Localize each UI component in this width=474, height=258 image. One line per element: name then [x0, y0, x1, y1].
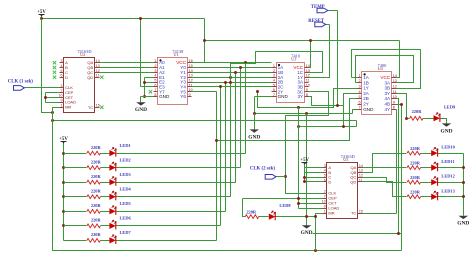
no-connect U2 TC [100, 106, 103, 109]
wire R10 to LED10 [421, 153, 432, 155]
svg-text:3A: 3A [384, 80, 391, 85]
junction LED4 trunk [62, 195, 65, 198]
wire over U3 to 1C [231, 52, 323, 83]
svg-text:3Y: 3Y [297, 94, 303, 99]
junction LED13 [462, 195, 465, 198]
resistor R4 [87, 195, 101, 199]
junction GND tie [143, 95, 146, 98]
wire to R3 [64, 182, 87, 184]
svg-text:CLK (2 sek): CLK (2 sek) [250, 167, 275, 172]
svg-text:13: 13 [189, 74, 193, 78]
wire over U4 line 2 [356, 56, 414, 83]
wire U4 3Y to LED9 [397, 94, 407, 119]
wire GND drop [254, 97, 256, 114]
wire to U4 1B [356, 82, 358, 84]
wire +5V long line jog [356, 121, 358, 127]
svg-text:D: D [65, 75, 68, 80]
junction LED11 [462, 166, 465, 169]
wire +5V to U3 VCC [305, 41, 311, 68]
wire to R4 [64, 196, 87, 198]
svg-text:7: 7 [324, 195, 326, 199]
wire bottom line 2 [313, 233, 402, 235]
LED LED5 [109, 206, 116, 215]
wire +5V stem [41, 16, 43, 19]
svg-text:4: 4 [273, 79, 275, 83]
ground G4 LED9 [442, 123, 452, 126]
wire Y6 drop to LED7 [216, 92, 218, 241]
resistor R1 [87, 151, 101, 155]
junction LED3 trunk [62, 181, 65, 184]
wire Y6 row [192, 91, 217, 93]
wire over U4 line 1 [352, 50, 421, 89]
wire MR bus / bottom rail [53, 108, 402, 251]
wire 3Y line extension [338, 105, 344, 107]
svg-text:TC: TC [88, 105, 93, 110]
wire R12 to LED12 [421, 182, 432, 184]
wire LED8 cathode to GND [275, 216, 316, 218]
junction 2Y row [256, 90, 259, 93]
junction U5 D [303, 180, 306, 183]
junction Y3 cross [229, 81, 232, 84]
wire U5 MR drop to bottom rail [316, 214, 323, 251]
wire to LOAD [46, 102, 60, 104]
wire E1-E2-GND tie [144, 78, 146, 97]
svg-text:5: 5 [324, 174, 326, 178]
svg-text:14: 14 [189, 69, 193, 73]
svg-text:2: 2 [61, 84, 63, 88]
svg-text:U5: U5 [343, 157, 348, 162]
svg-text:LED13: LED13 [441, 188, 455, 193]
wire U3 3C to CLK2 net [286, 92, 329, 177]
svg-text:GND: GND [457, 221, 469, 227]
svg-text:LED6: LED6 [120, 216, 132, 221]
wire Y5 row [192, 86, 272, 88]
wire U4 4Y drop to TC [396, 110, 398, 214]
svg-text:11: 11 [189, 83, 193, 87]
junction LED6 trunk [62, 224, 65, 227]
svg-text:14: 14 [359, 164, 363, 168]
svg-text:6: 6 [154, 83, 156, 87]
resistor R5 [87, 209, 101, 213]
svg-text:7: 7 [61, 89, 63, 93]
svg-text:U4: U4 [378, 66, 384, 71]
wire QC to A2 [100, 72, 154, 74]
resistor R11 [407, 166, 421, 170]
resistor R3 [87, 180, 101, 184]
svg-text:220R: 220R [412, 109, 423, 114]
svg-text:220R: 220R [91, 232, 102, 237]
svg-text:12: 12 [359, 174, 363, 178]
resistor R12 [407, 180, 421, 184]
svg-text:9: 9 [324, 205, 326, 209]
IC U1 74138 [154, 49, 193, 104]
wire Y0 row [192, 62, 272, 64]
resistor R7 [87, 239, 101, 243]
junction GND line [253, 112, 256, 115]
wire CEP/CET/LOAD feed [298, 108, 300, 209]
wire QB to A1 [100, 67, 154, 69]
wire LED6 cathode row [116, 225, 221, 227]
LED LED2 [109, 162, 116, 171]
junction G3 stem [305, 112, 308, 115]
no-connect U1 Y7 [149, 90, 152, 93]
wire +5V to U5 B [305, 172, 323, 174]
svg-text:220R: 220R [410, 146, 421, 151]
junction Y4 [224, 81, 227, 84]
wire LED3 cathode row [116, 182, 236, 184]
svg-text:8: 8 [306, 93, 308, 97]
IC U2 74163D [59, 49, 100, 112]
junction band 2A [297, 125, 300, 128]
wire Y2 row [192, 72, 272, 74]
svg-text:14: 14 [306, 64, 310, 68]
svg-text:12: 12 [393, 85, 397, 89]
svg-text:LED5: LED5 [120, 201, 132, 206]
IC U5 74163D [322, 154, 363, 219]
svg-text:10: 10 [306, 83, 310, 87]
wire +5V to U5 D [305, 181, 323, 183]
wire +5V to U1 VCC [192, 19, 205, 63]
svg-text:11: 11 [306, 79, 310, 83]
svg-text:16: 16 [189, 59, 193, 63]
wire Y0 drop to LED1 [245, 63, 247, 154]
svg-text:3: 3 [61, 59, 63, 63]
svg-text:LED11: LED11 [441, 159, 454, 164]
wire to U1 E1 [145, 77, 154, 79]
svg-text:10: 10 [189, 88, 193, 92]
wire R8 to LED8 [259, 216, 269, 218]
svg-text:220R: 220R [246, 210, 257, 215]
wire U3 GND pin [255, 96, 272, 98]
wire QC to LED12 [363, 178, 407, 183]
svg-text:4Y: 4Y [384, 107, 390, 112]
junction 2A drop [342, 125, 345, 128]
junction Y3 [229, 76, 232, 79]
svg-text:2: 2 [273, 69, 275, 73]
wire R3 to LED3 [101, 182, 110, 184]
wire R2 to LED2 [101, 167, 110, 169]
junction +5V rail [203, 39, 206, 42]
svg-text:Y6: Y6 [180, 94, 186, 99]
wire to R5 [64, 211, 87, 213]
wire LED7 cathode row [116, 240, 217, 242]
svg-text:LED8: LED8 [279, 203, 291, 208]
port RESET [315, 22, 326, 27]
junction LED8/GND stem [305, 215, 308, 218]
LED LED11 [431, 162, 438, 171]
svg-text:6: 6 [324, 178, 326, 182]
junction CLK2 port [284, 175, 287, 178]
wire QD to LED13 [363, 182, 407, 197]
svg-text:1: 1 [61, 104, 63, 108]
svg-text:3: 3 [273, 74, 275, 78]
svg-text:15: 15 [359, 210, 363, 214]
wire band line to U4 2A [299, 126, 357, 128]
wire CLK2 to U5 CLK [286, 177, 323, 194]
svg-text:CLK (1 sek): CLK (1 sek) [8, 80, 33, 85]
svg-text:VCC: VCC [380, 75, 390, 80]
wire LED10 cathode [438, 153, 464, 155]
wire to R2 [64, 167, 87, 169]
svg-text:MR: MR [65, 105, 71, 110]
svg-text:TC: TC [351, 211, 356, 216]
LED LED12 [431, 177, 438, 186]
wire LED4 cathode row [116, 196, 231, 198]
svg-text:220R: 220R [410, 190, 421, 195]
wire GND band line [255, 113, 353, 115]
ground G1 under U1 [136, 102, 146, 105]
LED LED9 [434, 113, 441, 122]
svg-text:6: 6 [61, 74, 63, 78]
wire to CET [46, 97, 60, 99]
svg-text:9: 9 [306, 88, 308, 92]
svg-text:1: 1 [154, 59, 156, 63]
svg-text:2B: 2B [363, 96, 369, 101]
wire Y1 drop to LED2 [240, 68, 242, 168]
wire R6 to LED6 [101, 225, 110, 227]
junction E3 drop [139, 17, 142, 20]
svg-text:4: 4 [154, 74, 156, 78]
svg-text:13: 13 [306, 69, 310, 73]
svg-text:3: 3 [324, 164, 326, 168]
LED LED6 [109, 220, 116, 229]
wire LED13 cathode [438, 196, 464, 198]
wire U4 GND drop to GND line [353, 110, 358, 114]
svg-text:U3: U3 [291, 57, 296, 62]
junction 4A line [397, 232, 400, 235]
wire +5V down to MR bus [42, 19, 53, 113]
svg-text:3: 3 [358, 85, 360, 89]
svg-text:15: 15 [189, 64, 193, 68]
junction CET tie [44, 96, 47, 99]
port TEMP [317, 8, 328, 13]
port CLK (1 sek) [14, 86, 25, 91]
svg-text:13: 13 [359, 169, 363, 173]
wire LED9 cathode [440, 119, 447, 124]
svg-text:220R: 220R [410, 175, 421, 180]
LED LED10 [431, 147, 438, 156]
wire Y3 drop to LED4 [230, 78, 232, 197]
svg-text:GND: GND [248, 134, 260, 140]
wire to ground G2 [254, 114, 256, 130]
no-connect U2 QD [100, 76, 103, 79]
wire Y3 row [192, 77, 272, 79]
wire RESET to U3 1Y [309, 25, 330, 78]
junction 2Y/CEP net [297, 106, 300, 109]
wire to R9 [407, 118, 410, 120]
junction Y2 [234, 71, 237, 74]
svg-text:8: 8 [154, 93, 156, 97]
wire +5V U5 stem [304, 165, 306, 182]
LED LED8 [269, 211, 276, 220]
LED LED4 [109, 191, 116, 200]
svg-text:GND: GND [301, 230, 313, 236]
junction LED1 trunk [62, 152, 65, 155]
svg-text:8: 8 [393, 106, 395, 110]
resistor R2 [87, 166, 101, 170]
wire TEMP [328, 10, 338, 12]
svg-text:4A: 4A [384, 96, 391, 101]
wire Y5 drop to LED6 [220, 87, 222, 226]
svg-text:11: 11 [96, 74, 100, 78]
wire +5V rail 2 [205, 40, 400, 42]
svg-text:12: 12 [189, 79, 193, 83]
wire to ground G1 [140, 97, 142, 102]
svg-text:14: 14 [96, 59, 100, 63]
wire right GND bus [463, 154, 465, 216]
wire +5V to U5 A [305, 167, 323, 169]
svg-text:MR: MR [328, 211, 334, 216]
wire +5V long line [53, 120, 357, 122]
junction LED12 [462, 181, 465, 184]
svg-text:220R: 220R [91, 174, 102, 179]
junction 4B [400, 103, 403, 106]
svg-text:13: 13 [393, 79, 397, 83]
svg-text:1A: 1A [363, 75, 370, 80]
svg-text:GND: GND [441, 128, 453, 134]
svg-text:GND: GND [278, 94, 289, 99]
wire up to U4 2A [344, 94, 358, 127]
wire to CEP [46, 92, 60, 94]
no-connect U2 C [53, 71, 56, 74]
wire R11 to LED11 [421, 167, 432, 169]
svg-text:10: 10 [393, 95, 397, 99]
svg-text:5: 5 [273, 83, 275, 87]
wire QA to A0 [100, 62, 154, 64]
svg-text:220R: 220R [91, 159, 102, 164]
svg-text:LED7: LED7 [120, 230, 132, 235]
svg-text:11: 11 [393, 90, 397, 94]
wire CLK1 to U2 CLK [25, 87, 60, 89]
svg-text:LED3: LED3 [120, 172, 132, 177]
svg-text:LED1: LED1 [120, 143, 131, 148]
wire CEP-CET-LOAD tie [45, 93, 47, 103]
svg-text:10: 10 [322, 200, 326, 204]
wire +5V drop to E3 [140, 19, 142, 87]
svg-text:7: 7 [273, 93, 275, 97]
svg-text:2: 2 [154, 64, 156, 68]
wire to R1 [64, 153, 87, 155]
junction LED2 trunk [62, 166, 65, 169]
wire Y1 row [192, 67, 272, 69]
wire CLK2 port [276, 176, 286, 178]
svg-text:LED12: LED12 [441, 174, 454, 179]
wire +5V to U5 C [305, 177, 323, 179]
svg-text:4: 4 [61, 64, 63, 68]
LED LED13 [431, 191, 438, 200]
junction +5V stem [40, 17, 43, 20]
resistor R6 [87, 224, 101, 228]
svg-text:D: D [328, 179, 331, 184]
svg-text:7: 7 [154, 88, 156, 92]
wire to U5 LOAD [299, 208, 323, 210]
svg-text:220R: 220R [91, 218, 102, 223]
svg-text:13: 13 [96, 64, 100, 68]
junction Y0 [244, 61, 247, 64]
svg-text:12: 12 [96, 69, 100, 73]
svg-text:9: 9 [393, 100, 395, 104]
LED LED3 [109, 177, 116, 186]
svg-text:7: 7 [358, 106, 360, 110]
svg-text:1: 1 [324, 210, 326, 214]
resistor R9 [410, 116, 424, 120]
svg-text:9: 9 [61, 99, 63, 103]
svg-text:U1: U1 [173, 52, 178, 57]
wire QA to LED11 [363, 167, 407, 169]
wire +5V rail top [42, 18, 205, 20]
junction U3 VCC tap [309, 39, 312, 42]
svg-text:LED9: LED9 [444, 105, 456, 110]
junction LED8/MR vert [314, 215, 317, 218]
svg-text:LED4: LED4 [120, 187, 132, 192]
svg-text:GND: GND [159, 94, 170, 99]
junction U5 C [303, 176, 306, 179]
svg-text:1: 1 [358, 74, 360, 78]
wire R4 to LED4 [101, 196, 110, 198]
svg-text:9: 9 [189, 93, 191, 97]
wire U1 GND pin [141, 96, 154, 98]
wire R9 to LED9 [423, 118, 434, 120]
junction +5V/MR bus [51, 111, 54, 114]
svg-text:1B: 1B [363, 80, 369, 85]
wire U4 4A drop [397, 99, 399, 234]
junction TEMP/3Y [336, 104, 339, 107]
wire LED1 cathode row [116, 153, 246, 155]
svg-text:5: 5 [61, 69, 63, 73]
no-connect U2 A [53, 61, 56, 64]
wire to U1 E2 [145, 82, 154, 84]
svg-text:1Y: 1Y [363, 86, 369, 91]
wire to U5 CET [299, 203, 323, 205]
wire Y2 drop to LED3 [235, 73, 237, 183]
wire TEMP to U3 3Y [309, 11, 338, 106]
wire Y4 drop to LED5 [225, 83, 227, 212]
IC U3 7410 [272, 54, 310, 103]
junction Y5 [219, 85, 222, 88]
wire LED2 cathode row [116, 167, 241, 169]
svg-text:4: 4 [358, 90, 360, 94]
svg-text:12: 12 [306, 74, 310, 78]
junction Y6 branch [215, 139, 218, 142]
wire U4 4B drop / right long vertical [397, 105, 402, 251]
svg-text:GND: GND [363, 107, 374, 112]
wire G1 stem [140, 97, 142, 103]
wire R13 to LED13 [421, 196, 432, 198]
junction E2 [143, 81, 146, 84]
svg-text:QD: QD [87, 75, 93, 80]
LED LED7 [109, 235, 116, 244]
svg-text:2: 2 [324, 190, 326, 194]
wire LED12 cathode [438, 182, 464, 184]
wire LED5 cathode row [116, 211, 226, 213]
wire to U1 E3 [141, 86, 154, 88]
junction LED9 feed [405, 117, 408, 120]
svg-text:5: 5 [358, 95, 360, 99]
wire to R6 [64, 225, 87, 227]
resistor R10 [407, 151, 421, 155]
svg-text:3: 3 [154, 69, 156, 73]
svg-text:LED2: LED2 [120, 157, 131, 162]
LED LED1 [109, 147, 116, 156]
svg-text:2: 2 [358, 79, 360, 83]
svg-text:4: 4 [324, 169, 326, 173]
wire LED11 cathode [438, 167, 464, 169]
svg-text:4B: 4B [384, 102, 390, 107]
wire 2Y row to U4 1Y [258, 89, 358, 108]
wire to R7 [64, 240, 87, 242]
svg-text:3Y: 3Y [384, 91, 390, 96]
ground G5 right bus [459, 216, 469, 219]
